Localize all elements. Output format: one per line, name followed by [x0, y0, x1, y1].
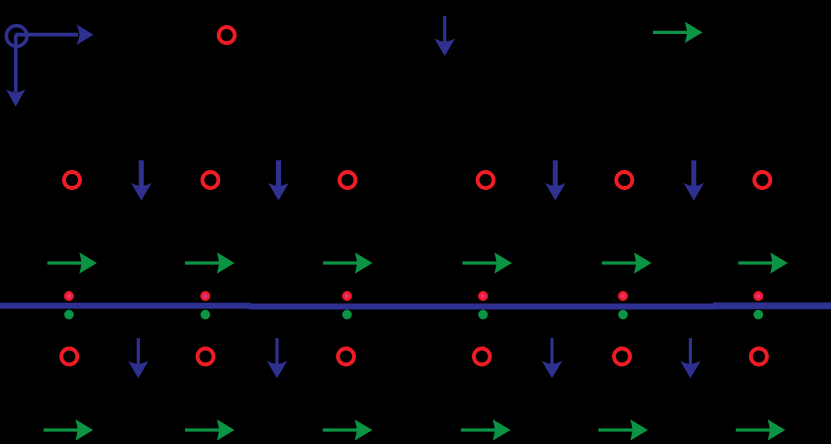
current sheet line segment A	[0, 303, 251, 309]
row3 green arrow 2	[185, 252, 235, 273]
row5 green arrow 5	[598, 419, 648, 440]
row4 circle 6	[751, 349, 767, 365]
row2 circle 2	[202, 172, 218, 188]
row2 circle 3	[340, 172, 356, 188]
dot pair 4 green	[478, 310, 488, 320]
row5 green arrow 4	[461, 419, 511, 440]
row2 arrow 2	[268, 160, 289, 200]
row3 green arrow 5	[602, 252, 652, 273]
row3 green arrow 1	[47, 252, 97, 273]
dot pair 2 red	[200, 291, 210, 301]
x-axis arrow	[15, 24, 93, 45]
dot pair 6 green	[754, 310, 764, 320]
row2 circle 4	[478, 172, 494, 188]
row2 circle 5	[616, 172, 632, 188]
row4 circle 2	[198, 349, 214, 365]
dot pair 1 red	[64, 291, 74, 301]
dot pair 6 red	[753, 291, 763, 301]
row3 green arrow 4	[463, 252, 513, 273]
current sheet line segment C	[713, 302, 831, 309]
row2 arrow 4	[684, 160, 705, 200]
legend green right arrow	[653, 22, 703, 43]
dot pair 3 green	[342, 310, 352, 320]
legend blue down arrow	[434, 16, 455, 56]
row4 arrow 2	[267, 338, 288, 378]
y-axis arrow	[6, 35, 25, 107]
dot pair 5 green	[618, 310, 628, 320]
row5 green arrow 2	[185, 419, 235, 440]
row4 circle 4	[474, 349, 490, 365]
row4 arrow 1	[128, 338, 149, 378]
row3 green arrow 6	[738, 252, 788, 273]
row4 circle 5	[614, 349, 630, 365]
legend red circle	[219, 27, 235, 43]
row5 green arrow 6	[736, 419, 786, 440]
row2 circle 6	[754, 172, 770, 188]
row5 green arrow 1	[44, 419, 94, 440]
dot pair 2 green	[201, 310, 211, 320]
row2 arrow 1	[131, 160, 152, 200]
dot pair 5 red	[618, 291, 628, 301]
dot pair 3 red	[342, 291, 352, 301]
row4 arrow 4	[680, 338, 701, 378]
row4 circle 3	[338, 349, 354, 365]
dot pair 1 green	[64, 310, 74, 320]
row5 green arrow 3	[323, 419, 373, 440]
current sheet line segment B	[249, 304, 714, 310]
row3 green arrow 3	[323, 252, 373, 273]
row4 arrow 3	[542, 338, 563, 378]
coordinate origin circle	[6, 26, 27, 47]
row2 circle 1	[64, 172, 80, 188]
row2 arrow 3	[545, 160, 566, 200]
dot pair 4 red	[478, 291, 488, 301]
row4 circle 1	[61, 349, 77, 365]
